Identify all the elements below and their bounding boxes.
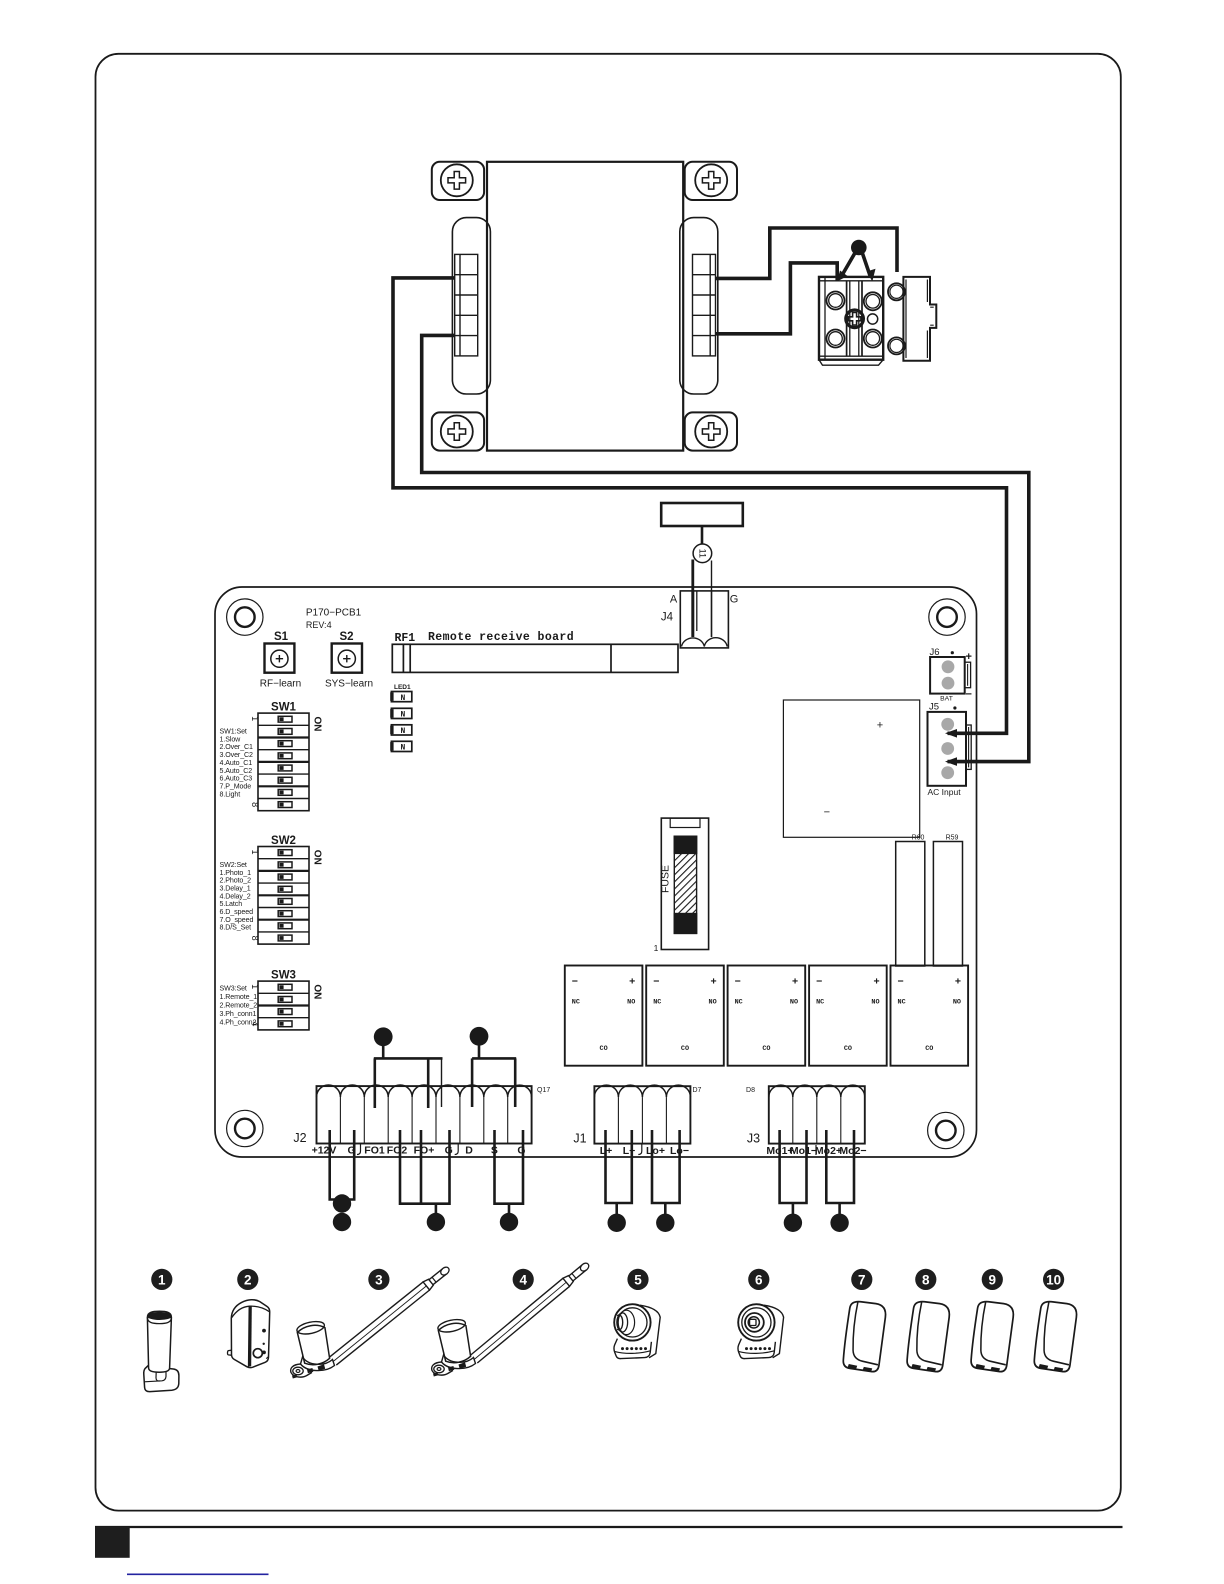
svg-text:J3: J3: [747, 1132, 760, 1146]
item badge 10: [1043, 1269, 1064, 1290]
svg-text:+12V: +12V: [312, 1145, 337, 1157]
transformer right bobbin: [680, 218, 718, 394]
svg-text:−: −: [898, 976, 904, 988]
wire pair J2 +12V/G to accessory: [330, 1130, 355, 1200]
footer black square marker: [95, 1527, 130, 1558]
svg-text:NC: NC: [816, 999, 824, 1007]
LED D3: [390, 725, 412, 736]
svg-text:SW3:Set1.Remote_12.Remote_23.P: SW3:Set1.Remote_12.Remote_23.Ph_conn14.P…: [220, 984, 258, 1026]
connector J5 (AC input): [928, 712, 972, 786]
svg-text:−: −: [735, 976, 741, 988]
svg-text:4: 4: [519, 1272, 527, 1287]
SW2 switch position 6: [278, 911, 292, 917]
svg-text:Mo1−: Mo1−: [790, 1145, 817, 1157]
svg-text:ON: ON: [312, 850, 323, 865]
item badge 7: [851, 1269, 872, 1290]
node: dot under L+/L-: [608, 1214, 626, 1232]
svg-text:+: +: [792, 976, 798, 988]
svg-text:FO+: FO+: [414, 1145, 435, 1157]
pushbutton S1: [265, 644, 295, 673]
item 4: actuator arm right: [471, 1262, 591, 1363]
terminal block flange hole bottom: [888, 337, 905, 354]
item badge 8: [915, 1269, 936, 1290]
svg-text:1: 1: [158, 1272, 166, 1287]
svg-text:7: 7: [858, 1272, 866, 1287]
J3 label separator: [815, 1145, 817, 1155]
item 8: wall bracket cover: [906, 1301, 950, 1373]
svg-text:NO: NO: [709, 999, 717, 1007]
svg-text:6: 6: [755, 1272, 763, 1287]
node: dot under FO2/G pair: [427, 1213, 445, 1231]
node: dot under Mo2 pair: [830, 1214, 848, 1232]
SW3 switch position 3: [278, 1009, 292, 1015]
item 3: actuator arm left: [330, 1266, 451, 1366]
item 9: wall bracket cover: [970, 1301, 1014, 1373]
terminal block TB1 main body: [819, 277, 883, 365]
item 2: control unit: [227, 1300, 269, 1368]
svg-text:SYS−learn: SYS−learn: [325, 679, 373, 690]
svg-text:Q17: Q17: [537, 1087, 550, 1094]
SW1 switch position 5: [278, 765, 292, 771]
terminal block wire hole top-right: [864, 292, 882, 310]
item badge 3: [368, 1269, 389, 1290]
wire pair J3 Mo2+/Mo2-: [826, 1130, 854, 1203]
svg-text:1: 1: [654, 943, 659, 953]
svg-text:−: −: [966, 689, 972, 701]
footer blue link underline: [127, 1573, 269, 1575]
SW1 switch position 8: [278, 802, 292, 808]
svg-text:N: N: [401, 711, 406, 720]
PCB mounting hole top-right: [929, 599, 965, 635]
relay K4: [809, 966, 887, 1066]
svg-text:D: D: [465, 1145, 473, 1157]
node: mains wire junction dot above terminal block: [851, 240, 867, 256]
terminal strip J1 body: [594, 1085, 690, 1143]
SW2 switch position 5: [278, 899, 292, 905]
terminal block wire hole bottom-left: [827, 330, 845, 348]
svg-text:1: 1: [250, 716, 260, 721]
svg-text:L−: L−: [623, 1145, 636, 1157]
transformer T1 body: [487, 162, 683, 451]
SW2 switch position 2: [278, 862, 292, 868]
svg-text:Mo2+: Mo2+: [815, 1145, 842, 1157]
svg-text:SW1:Set1.Slow2.Over_C13.Over_C: SW1:Set1.Slow2.Over_C13.Over_C24.Auto_C1…: [220, 728, 254, 799]
terminal block small pilot hole: [868, 314, 878, 324]
svg-text:+: +: [711, 976, 717, 988]
transformer left pin header: [455, 254, 478, 356]
svg-text:+: +: [877, 720, 883, 732]
transformer left bobbin: [452, 218, 490, 394]
svg-text:1: 1: [250, 849, 260, 854]
item badge 6: [748, 1269, 769, 1290]
item 7: wall bracket cover: [843, 1301, 887, 1373]
svg-text:Lo+: Lo+: [646, 1145, 665, 1157]
svg-text:11: 11: [697, 549, 707, 558]
svg-text:J6: J6: [930, 647, 940, 658]
terminal block wire hole top-left: [827, 292, 845, 310]
svg-text:2: 2: [244, 1272, 252, 1287]
svg-text:−: −: [572, 976, 578, 988]
svg-text:SW2: SW2: [271, 835, 296, 847]
wire pair J3 Mo1+/Mo1-: [780, 1130, 807, 1203]
DIP switch bank SW2 body: [258, 847, 309, 945]
wire W3 transformer primary to terminal block (upper): [716, 228, 898, 278]
SW1 switch position 3: [278, 741, 292, 747]
svg-text:J1: J1: [573, 1132, 586, 1146]
svg-text:+: +: [873, 976, 879, 988]
wire W4 transformer primary to terminal block (lower): [716, 263, 838, 334]
svg-text:ON: ON: [312, 717, 323, 732]
wire V-drop right from junction dot: [862, 252, 871, 277]
SW1 switch position 6: [278, 777, 292, 783]
item badge 1: [151, 1269, 172, 1290]
svg-text:3: 3: [375, 1272, 383, 1287]
svg-text:+: +: [629, 976, 635, 988]
connector J6 (battery): [930, 657, 971, 694]
svg-text:FO2: FO2: [387, 1145, 408, 1157]
SW1 switch position 2: [278, 729, 292, 735]
svg-text:RF1: RF1: [395, 632, 416, 645]
svg-text:CO: CO: [844, 1045, 852, 1053]
svg-text:J5: J5: [929, 702, 939, 713]
PCB mounting hole top-left: [227, 599, 263, 635]
svg-text:5: 5: [634, 1272, 642, 1287]
svg-text:N: N: [401, 727, 406, 736]
svg-text:P170−PCB1: P170−PCB1: [306, 608, 362, 619]
fuse F1 cartridge: [674, 836, 696, 933]
RF1 remote receive module outline: [392, 644, 678, 672]
svg-text:R60: R60: [912, 835, 925, 842]
DIP switch bank SW3 body: [258, 981, 309, 1030]
wire triple J2 FO2/FO+/G to accessory: [400, 1130, 450, 1214]
svg-text:NO: NO: [871, 999, 879, 1007]
svg-text:AC Input: AC Input: [928, 787, 962, 797]
svg-text:8: 8: [922, 1272, 930, 1287]
resistor R59: [933, 842, 962, 967]
svg-text:J2: J2: [293, 1131, 306, 1145]
wire pair J1 L+/L-: [606, 1130, 632, 1203]
wire from dot A to J2: [374, 1045, 443, 1108]
relay K3: [728, 966, 806, 1066]
DIP switch bank SW1 body: [258, 713, 309, 811]
wire antenna lead A (thick): [691, 560, 694, 638]
node: accessory terminal dot A (flash lamp): [374, 1027, 393, 1046]
svg-text:CO: CO: [925, 1045, 933, 1053]
J2 label separator 2: [455, 1144, 459, 1155]
svg-text:LED1: LED1: [394, 684, 411, 691]
svg-text:NC: NC: [653, 999, 661, 1007]
wire W2 arrowhead: [945, 757, 957, 766]
svg-text:Remote receive board: Remote receive board: [428, 631, 574, 644]
node: dot on +12V/G pair: [333, 1194, 351, 1212]
SW1 switch position 4: [278, 753, 292, 759]
svg-text:D8: D8: [746, 1087, 755, 1094]
LED D2: [390, 708, 412, 719]
pushbutton S2: [332, 644, 362, 673]
svg-text:CO: CO: [762, 1045, 770, 1053]
SW3 switch position 2: [278, 997, 292, 1003]
wire antenna stem: [701, 526, 704, 544]
svg-text:SW2:Set1.Photo_12.Photo_23.Del: SW2:Set1.Photo_12.Photo_23.Delay_14.Dela…: [220, 861, 254, 932]
svg-text:−: −: [824, 807, 830, 819]
wire W1 arrowhead: [945, 729, 957, 738]
transformer mounting tab top-right with screw: [685, 162, 737, 200]
SW2 switch position 7: [278, 923, 292, 929]
LED D1: [390, 692, 412, 703]
page border frame: [96, 54, 1121, 1511]
item badge 5: [627, 1269, 648, 1290]
item 10: wall bracket cover: [1034, 1301, 1078, 1373]
svg-text:NC: NC: [572, 999, 580, 1007]
SW3 switch position 1: [278, 984, 292, 990]
svg-text:1: 1: [250, 984, 260, 989]
wire from dot B to J2: [472, 1045, 516, 1107]
SW2 switch position 1: [278, 850, 292, 856]
callout balloon 11: [693, 544, 712, 563]
PCB board outline: [215, 587, 977, 1157]
bridge rectifier module: [783, 700, 919, 837]
wire W2 transformer secondary to AC input (inner): [422, 335, 1029, 761]
node: dot under Lo+/Lo-: [656, 1214, 674, 1232]
J6 polarity dot: [951, 651, 954, 654]
SW2 switch position 3: [278, 874, 292, 880]
SW1 switch position 1: [278, 716, 292, 722]
relay K5: [891, 966, 969, 1066]
svg-text:J4: J4: [661, 612, 674, 624]
footer rule: [95, 1526, 1123, 1528]
svg-text:S1: S1: [274, 631, 289, 643]
svg-text:G: G: [517, 1145, 525, 1157]
svg-text:NC: NC: [898, 999, 906, 1007]
item badge 4: [513, 1269, 534, 1290]
item badge 2: [237, 1269, 258, 1290]
connector J4 (antenna input): [680, 591, 728, 648]
J2 label separator 1: [357, 1144, 361, 1155]
svg-text:R59: R59: [946, 835, 959, 842]
svg-text:9: 9: [989, 1272, 997, 1287]
item 5: photocell transmitter: [614, 1304, 660, 1358]
SW2 switch position 4: [278, 886, 292, 892]
terminal strip J2 body: [317, 1085, 532, 1143]
svg-text:SW3: SW3: [271, 970, 296, 982]
wire W1 transformer secondary to AC input (outer left): [393, 278, 1007, 733]
PCB mounting hole bottom-left: [227, 1110, 263, 1146]
svg-text:G: G: [730, 594, 739, 606]
svg-text:+: +: [955, 976, 961, 988]
svg-text:10: 10: [1046, 1272, 1061, 1287]
svg-text:ON: ON: [312, 984, 323, 999]
terminal block right clamp piece: [903, 277, 936, 361]
node: dot under Mo1 pair: [784, 1214, 802, 1232]
svg-text:N: N: [401, 694, 406, 703]
node: accessory terminal dot B: [470, 1027, 489, 1046]
terminal block wire hole bottom-right: [864, 330, 882, 348]
wire V-drop left from junction dot: [841, 252, 856, 277]
item badge 9: [982, 1269, 1003, 1290]
item 6: photocell receiver: [738, 1304, 784, 1358]
svg-text:NC: NC: [735, 999, 743, 1007]
J1 label separator: [638, 1144, 642, 1155]
SW3 switch position 4: [278, 1021, 292, 1027]
svg-text:CO: CO: [681, 1045, 689, 1053]
svg-text:RF−learn: RF−learn: [260, 679, 301, 690]
node: dot under S/G pair: [500, 1213, 518, 1231]
item 1: antenna: [144, 1311, 179, 1391]
svg-text:NO: NO: [953, 999, 961, 1007]
svg-text:D7: D7: [693, 1087, 702, 1094]
terminal block flange hole top: [888, 283, 905, 300]
svg-text:SW1: SW1: [271, 702, 297, 714]
transformer mounting tab top-left with screw: [432, 162, 484, 200]
relay K1: [565, 966, 643, 1066]
LED D4: [390, 741, 412, 752]
transformer mounting tab bottom-left with screw: [432, 412, 484, 450]
SW1 switch position 7: [278, 790, 292, 796]
transformer mounting tab bottom-right with screw: [685, 412, 737, 450]
svg-text:NO: NO: [627, 999, 635, 1007]
wire pair J1 Lo+/Lo-: [652, 1130, 680, 1203]
svg-text:−: −: [816, 976, 822, 988]
svg-text:+: +: [966, 651, 972, 663]
fuse F1 holder: [661, 818, 708, 949]
svg-text:−: −: [653, 976, 659, 988]
svg-text:N: N: [401, 744, 406, 753]
svg-text:A: A: [670, 594, 678, 606]
transformer right pin header: [693, 254, 716, 356]
svg-text:FUSE: FUSE: [660, 865, 672, 893]
SW2 switch position 8: [278, 935, 292, 941]
wire pair J2 S/G to accessory: [495, 1130, 524, 1214]
node: second dot under +12V/G pair: [333, 1213, 351, 1231]
PCB mounting hole bottom-right: [928, 1112, 964, 1148]
svg-text:8: 8: [250, 936, 260, 941]
wire antenna lead G (thin): [711, 561, 713, 638]
svg-text:NO: NO: [790, 999, 798, 1007]
relay K2: [646, 966, 724, 1066]
svg-text:BAT: BAT: [940, 696, 953, 703]
terminal block center fixing screw: [846, 310, 864, 328]
svg-text:CO: CO: [600, 1045, 608, 1053]
svg-text:REV:4: REV:4: [306, 620, 332, 630]
antenna terminal bar: [661, 503, 743, 526]
J5 polarity dot: [953, 706, 956, 709]
terminal strip J3 body: [769, 1085, 865, 1143]
resistor R60: [896, 842, 925, 967]
svg-text:8: 8: [250, 802, 260, 807]
svg-text:S2: S2: [339, 631, 353, 643]
svg-text:FO1: FO1: [364, 1145, 385, 1157]
